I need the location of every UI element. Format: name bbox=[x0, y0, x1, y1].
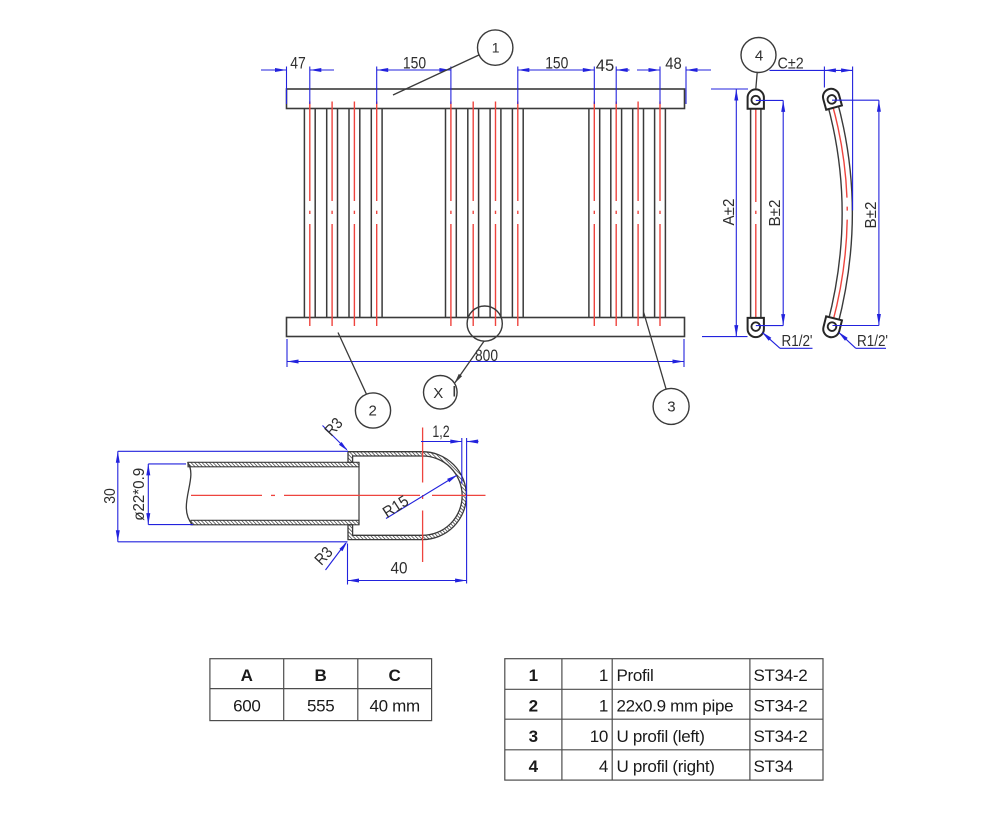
svg-text:ST34-2: ST34-2 bbox=[754, 666, 808, 685]
svg-text:1: 1 bbox=[492, 40, 500, 56]
dimension 40 bbox=[348, 544, 467, 585]
tube 1 (U profil) bbox=[304, 102, 315, 327]
tube 3 (U profil) bbox=[349, 102, 360, 327]
dimension 1,2 wall thickness bbox=[421, 423, 479, 584]
svg-text:1: 1 bbox=[529, 666, 538, 685]
curved view top fitting bbox=[821, 87, 842, 110]
tube 2 (U profil) bbox=[327, 102, 338, 327]
svg-text:48: 48 bbox=[665, 54, 682, 73]
svg-text:ø22*0.9: ø22*0.9 bbox=[131, 468, 148, 521]
svg-text:ST34-2: ST34-2 bbox=[754, 727, 808, 746]
tube 4 (U profil) bbox=[371, 102, 382, 327]
radius label R3 top bbox=[322, 415, 348, 451]
svg-text:3: 3 bbox=[667, 399, 675, 416]
svg-text:R1/2': R1/2' bbox=[782, 333, 813, 350]
curved view bottom fitting bbox=[822, 316, 842, 339]
dimension ø22*0.9 bbox=[131, 464, 193, 525]
svg-text:555: 555 bbox=[307, 697, 334, 716]
tube 6 (U profil) bbox=[468, 102, 479, 327]
bottom profil bar bbox=[287, 318, 685, 337]
svg-text:2: 2 bbox=[369, 403, 377, 420]
dimension A±2 bbox=[702, 89, 748, 337]
radius label R3 bottom bbox=[312, 542, 347, 570]
svg-text:40 mm: 40 mm bbox=[369, 697, 420, 716]
tube 7 (U profil) bbox=[490, 102, 501, 327]
svg-text:4: 4 bbox=[529, 757, 539, 776]
svg-text:150: 150 bbox=[545, 53, 568, 72]
svg-text:R1/2': R1/2' bbox=[857, 333, 888, 350]
straight view bottom fitting bbox=[748, 318, 764, 337]
top profil bar (item 1) bbox=[287, 89, 685, 109]
svg-text:A±2: A±2 bbox=[721, 199, 738, 226]
dimension C±2 bbox=[770, 55, 853, 210]
dimension 48 bbox=[637, 54, 711, 104]
svg-text:30: 30 bbox=[102, 488, 119, 504]
detail horizontal centerline bbox=[191, 494, 486, 496]
dimension 30 bbox=[102, 451, 348, 542]
straight profile tube bbox=[751, 104, 761, 322]
svg-text:600: 600 bbox=[233, 697, 260, 716]
dimension B±2 curved view bbox=[832, 100, 881, 325]
svg-text:ST34-2: ST34-2 bbox=[754, 697, 808, 716]
svg-text:2: 2 bbox=[529, 697, 538, 716]
dimension 47 bbox=[261, 54, 334, 105]
balloon 3 (tubes) bbox=[644, 313, 689, 425]
detail U profil cap (hatched) bbox=[348, 452, 466, 540]
dimension 800 bbox=[287, 339, 684, 367]
detail label circle X with leader arrow bbox=[424, 341, 485, 409]
thread label R1/2 inch straight view bbox=[762, 332, 813, 350]
balloon 4 (straight fitting) bbox=[741, 38, 776, 90]
detail pipe top wall bbox=[188, 462, 359, 467]
dimension 45 bbox=[596, 56, 630, 104]
svg-text:C: C bbox=[389, 666, 401, 685]
svg-text:ST34: ST34 bbox=[754, 757, 793, 776]
radius label R15 bbox=[380, 475, 457, 522]
svg-text:U profil (right): U profil (right) bbox=[617, 757, 715, 776]
svg-text:3: 3 bbox=[529, 727, 538, 746]
svg-text:X: X bbox=[433, 385, 443, 402]
curved profile tube bbox=[832, 101, 847, 325]
svg-text:45: 45 bbox=[596, 56, 615, 75]
balloon 2 (bottom bar) bbox=[338, 333, 391, 429]
table ABC values bbox=[210, 659, 432, 721]
table bill of materials bbox=[505, 659, 823, 780]
svg-text:150: 150 bbox=[403, 53, 426, 72]
thread label R1/2 inch curved view bbox=[838, 332, 888, 350]
svg-text:4: 4 bbox=[599, 757, 608, 776]
svg-text:B±2: B±2 bbox=[767, 200, 784, 227]
tube 8 (U profil) bbox=[512, 102, 523, 327]
svg-text:C±2: C±2 bbox=[778, 55, 804, 72]
svg-text:47: 47 bbox=[290, 54, 306, 73]
detail circle X on bottom bar bbox=[467, 306, 502, 341]
svg-text:10: 10 bbox=[590, 727, 608, 746]
balloon 1 (top bar) bbox=[393, 30, 513, 95]
detail pipe break line bbox=[186, 462, 192, 525]
svg-text:22x0.9 mm pipe: 22x0.9 mm pipe bbox=[617, 697, 734, 716]
detail vertical centerline bbox=[422, 428, 424, 563]
straight view top fitting bbox=[748, 89, 764, 108]
svg-text:Profil: Profil bbox=[617, 666, 654, 685]
svg-text:A: A bbox=[241, 666, 253, 685]
dimension 150 left bbox=[377, 53, 451, 104]
tube 12 (U profil) bbox=[655, 102, 666, 327]
svg-text:B±2: B±2 bbox=[863, 202, 880, 229]
svg-text:U profil (left): U profil (left) bbox=[617, 727, 705, 746]
svg-text:40: 40 bbox=[391, 560, 408, 578]
tube 11 (U profil) bbox=[633, 102, 644, 327]
svg-text:1: 1 bbox=[599, 666, 608, 685]
detail pipe end face bbox=[358, 462, 360, 525]
dimension B±2 straight view bbox=[756, 100, 785, 325]
tube 10 (U profil) bbox=[611, 102, 622, 327]
dimension 150 right bbox=[518, 53, 595, 104]
svg-text:1,2: 1,2 bbox=[432, 423, 449, 441]
svg-text:4: 4 bbox=[755, 47, 763, 64]
svg-text:B: B bbox=[315, 666, 327, 685]
tube 9 (U profil) bbox=[589, 102, 600, 327]
tube 5 (U profil) bbox=[446, 102, 457, 327]
svg-text:1: 1 bbox=[599, 697, 608, 716]
detail pipe bottom wall bbox=[191, 520, 359, 525]
